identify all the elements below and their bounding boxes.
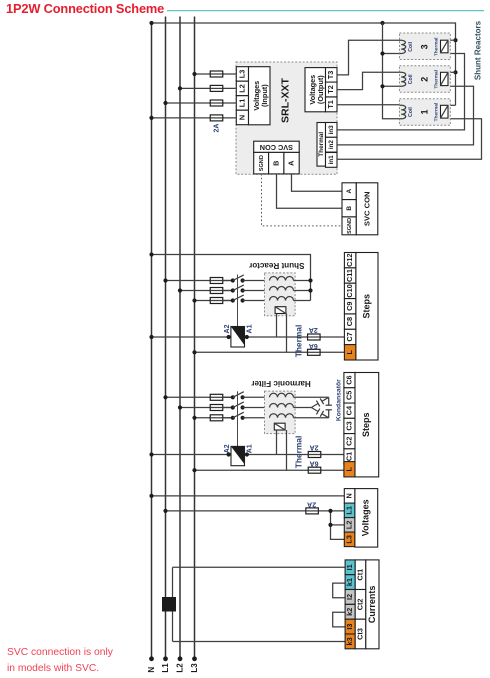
terminal steps1 C11 [344, 268, 356, 283]
svg-text:C4: C4 [344, 405, 353, 415]
svg-text:2A: 2A [307, 500, 316, 507]
svg-text:L3: L3 [238, 70, 247, 79]
wire section2 row 1 to coil [243, 396, 270, 398]
svg-text:3: 3 [419, 44, 429, 49]
svg-text:Currents: Currents [367, 586, 377, 624]
svg-text:L3: L3 [190, 663, 199, 673]
wire section2 thermal left [276, 430, 278, 455]
switch contactor K2 pole 3 [222, 417, 233, 419]
svg-text:2: 2 [419, 77, 429, 82]
svg-text:C10: C10 [345, 284, 354, 297]
fuse F-N 2A [209, 117, 224, 119]
wire A to SVC CON [292, 174, 343, 191]
wire SGND dotted to SVC CON [262, 174, 343, 226]
terminal SRL input N [236, 110, 248, 125]
wire section2 row 3 to coil [243, 417, 270, 419]
shunt reactor 3 [400, 33, 451, 60]
terminal SRL thermal in2 [326, 137, 338, 152]
wire section2 thermal right [286, 430, 288, 470]
svg-text:Steps: Steps [361, 412, 371, 437]
svg-text:in1: in1 [328, 155, 335, 165]
svg-text:A2: A2 [224, 444, 231, 453]
svg-text:Coil: Coil [408, 41, 414, 51]
svg-text:SRL-XXT: SRL-XXT [279, 77, 291, 123]
svg-text:A2: A2 [224, 324, 231, 333]
node L3 bus bottom terminal [192, 656, 197, 661]
inductor section1 coil 1 [270, 277, 294, 281]
svg-text:Shunt Reactor: Shunt Reactor [248, 261, 304, 270]
fuse F-L2 2A [209, 87, 224, 89]
svg-text:N: N [147, 667, 156, 673]
wire section2 phase row 3 [195, 417, 233, 419]
wire L1 to voltages [166, 510, 345, 512]
svg-text:Kondansatör: Kondansatör [336, 379, 343, 421]
capacitor right branch [328, 397, 330, 405]
terminal steps1 C8 [344, 314, 356, 329]
terminal voltages L2 [344, 518, 355, 533]
box Voltages [355, 489, 378, 547]
terminal voltages L3 [344, 532, 355, 547]
switch contactor K2 pole 1 [222, 396, 233, 398]
node section1 bus junction 1 [163, 278, 167, 282]
terminal steps1 C12 [344, 253, 356, 268]
wire T1 to reactor 1 coil [337, 104, 400, 106]
fuse F-L1 2A [209, 102, 224, 104]
svg-text:L: L [344, 467, 353, 472]
wire L2 bus vertical [179, 17, 181, 659]
terminal voltages L1 [344, 503, 355, 517]
terminal steps2 C6 [344, 373, 355, 388]
wire B to SVC CON [277, 174, 343, 208]
svg-text:Coil: Coil [408, 74, 414, 84]
inductor section1 coil 3 [270, 297, 294, 301]
fuse section1 row 2 [209, 290, 224, 292]
terminal steps1 C7 [344, 329, 356, 344]
node section1 L3 junction [192, 350, 196, 354]
wire section2 phase row 1 [166, 396, 233, 398]
node N bus bottom terminal [149, 656, 154, 661]
box Ct1 [355, 560, 366, 590]
terminal SVCCON A [342, 183, 356, 200]
wire reactor common vertical [383, 23, 400, 119]
contactor K1 coil [231, 327, 245, 348]
svg-text:Steps: Steps [361, 294, 371, 319]
node L1 bus bottom terminal [163, 656, 168, 661]
node N junction voltages [149, 494, 153, 498]
wire currents jumper k1-I2 [333, 583, 345, 598]
svg-text:1: 1 [419, 110, 429, 115]
wire section2 L feed [195, 469, 344, 471]
terminal SVCCON B [342, 200, 356, 217]
terminal SRL input L3 [236, 67, 248, 82]
wire section2 row 2 to coil [243, 407, 270, 409]
node contactor K1 A2 pin [227, 335, 231, 339]
svg-text:Ct3: Ct3 [355, 628, 364, 640]
svg-text:L1: L1 [161, 663, 170, 673]
terminal SRL thermal in1 [326, 153, 338, 168]
wire contactor K1 linkage [237, 275, 239, 327]
node N bus junction [149, 116, 153, 120]
wire thermal common chain [455, 40, 457, 105]
wire section1 row 3 to coil [243, 300, 270, 302]
svg-text:L1: L1 [345, 506, 354, 515]
terminal SRL input L1 [236, 96, 248, 111]
wire T2 to reactor 2 coil [337, 72, 400, 89]
svg-text:L1: L1 [238, 99, 247, 108]
svg-text:I3: I3 [345, 624, 354, 630]
node section2 bus junction 3 [192, 416, 196, 420]
svg-text:Coil: Coil [408, 107, 414, 117]
wire L3 bus vertical [194, 17, 196, 659]
wire section1 coil common to N [152, 255, 311, 301]
node L2 bus bottom terminal [178, 656, 183, 661]
thermal element section1 [275, 307, 286, 314]
svg-text:Thermal: Thermal [434, 38, 440, 57]
wire section1 phase row 1 [166, 280, 233, 282]
node contactor K2 A1 pin [245, 452, 249, 456]
node section1 N junction [149, 252, 153, 256]
box Voltages (Input) [249, 67, 271, 125]
wire currents jumper k2-I3 [333, 612, 345, 627]
svg-text:C2: C2 [344, 437, 353, 446]
fuse section2 6A [307, 469, 322, 471]
svg-text:C7: C7 [345, 332, 354, 341]
wire contactor K2 linkage [237, 391, 239, 446]
svg-text:SGND: SGND [347, 218, 353, 234]
wire R3 thermal top link [448, 39, 456, 41]
terminal steps2 L [344, 462, 355, 477]
svg-text:A: A [287, 160, 296, 166]
svg-text:T3: T3 [326, 71, 335, 80]
terminal currents I3 [345, 619, 355, 634]
svg-text:6A: 6A [309, 342, 318, 349]
wire R3 thermal to in3 [337, 54, 465, 130]
wire section1 L feed [195, 351, 345, 353]
inductor section1 coil 2 [270, 287, 294, 291]
node section2 N junction A2 [149, 452, 153, 456]
terminal voltages N [344, 489, 355, 504]
fuse section2 row 1 [209, 396, 224, 398]
node rail-N junction [149, 21, 153, 25]
svg-text:C1: C1 [344, 452, 353, 461]
wire section1 phase row 3 [195, 300, 233, 302]
svg-text:(Output): (Output) [316, 75, 325, 104]
terminal currents k2 [345, 604, 355, 619]
svg-text:C3: C3 [344, 421, 353, 430]
switch contactor K1 pole 3 [222, 300, 233, 302]
note SVC models [7, 645, 113, 677]
wire N to SRL input [152, 117, 237, 119]
wire section1 coil 2 out [294, 290, 311, 292]
wire L1 to SRL input [166, 102, 237, 104]
node contactor K2 A2 pin [227, 452, 231, 456]
node section1 coil out junction 1 [308, 278, 312, 282]
node section1 N junction A2 [149, 335, 153, 339]
svg-text:6A: 6A [310, 459, 319, 466]
svg-text:2A: 2A [214, 124, 221, 133]
inductor section2 coil 1 [270, 393, 294, 397]
node L1 bus junction [163, 101, 167, 105]
fuse section2 row 3 [209, 417, 224, 419]
svg-text:k2: k2 [345, 608, 354, 616]
wire N top rail [152, 23, 456, 40]
current transformer CT primary [162, 597, 176, 612]
wire N bus vertical [151, 23, 153, 659]
node section2 L3 junction [192, 468, 196, 472]
node reactor2 return junction [380, 84, 384, 88]
terminal SRL output T3 [326, 68, 338, 83]
wire R1 thermal to in1 [337, 119, 482, 160]
wire cap mid feed [294, 407, 312, 409]
terminal SRL output T1 [326, 97, 338, 112]
wire L1 bus vertical [165, 17, 167, 659]
wire section2 A2 feed [152, 454, 229, 456]
svg-text:T1: T1 [326, 100, 335, 109]
box Thermal inputs [317, 123, 326, 167]
svg-text:Ct2: Ct2 [355, 599, 364, 611]
node section1 coil out junction 2 [308, 288, 312, 292]
shunt reactor 2 [400, 66, 451, 93]
node voltages bridge junction 2 [328, 523, 332, 527]
node section1 bus junction 3 [192, 298, 196, 302]
svg-text:C6: C6 [344, 375, 353, 384]
terminal steps2 C5 [344, 388, 355, 403]
wire L3 to SRL input [195, 73, 237, 75]
wire section1 A2 feed [152, 336, 229, 338]
svg-text:Thermal: Thermal [434, 70, 440, 89]
box Shunt Reactor dashed [265, 273, 296, 316]
wire L2 to SRL input [180, 87, 236, 89]
terminal SRL thermal in3 [326, 123, 338, 138]
terminal steps2 C1 [344, 449, 355, 464]
terminal steps2 C3 [344, 418, 355, 433]
svg-text:A1: A1 [247, 444, 254, 453]
svg-text:L3: L3 [345, 535, 354, 544]
terminal currents k1 [345, 575, 355, 590]
fuse section1 2A [307, 336, 322, 338]
terminal steps2 C2 [344, 434, 355, 449]
svg-text:k1: k1 [345, 578, 354, 586]
wire section1 A1 to C7 [247, 336, 345, 338]
svg-text:C12: C12 [345, 253, 354, 266]
wire section1 phase row 2 [180, 290, 233, 292]
box Harmonic Filter dashed [265, 391, 296, 434]
wire reactor 3 coil return [383, 53, 400, 55]
terminal SRL output T2 [326, 82, 338, 97]
svg-text:T2: T2 [326, 85, 335, 94]
contactor K2 coil [231, 446, 245, 465]
svg-text:Ct1: Ct1 [355, 569, 364, 581]
shunt reactor 1 [400, 99, 451, 126]
svg-text:L: L [345, 350, 354, 355]
node reactor3 return junction [380, 51, 384, 55]
svg-text:2A: 2A [309, 326, 318, 333]
wire voltages L2 stub [331, 524, 345, 526]
node contactor K1 A1 pin [245, 335, 249, 339]
box SVC CON header [254, 141, 300, 152]
wire section1 thermal right [286, 314, 288, 353]
svg-text:L2: L2 [176, 663, 185, 673]
fuse section1 row 3 [209, 300, 224, 302]
svg-text:C9: C9 [345, 302, 354, 311]
svg-text:C8: C8 [345, 317, 354, 326]
box SVC CON external [356, 183, 378, 235]
terminal currents I1 [345, 560, 355, 575]
svg-text:Shunt Reactors: Shunt Reactors [474, 20, 483, 80]
wire section1 row 1 to coil [243, 280, 270, 282]
wire section2 phase row 2 [180, 407, 233, 409]
svg-text:Thermal: Thermal [294, 436, 304, 469]
node L3 bus junction [192, 72, 196, 76]
svg-text:B: B [271, 161, 280, 166]
teal header rule [167, 10, 484, 12]
terminal SVC B [269, 152, 284, 174]
box Ct3 [355, 619, 366, 649]
terminal steps1 C10 [344, 283, 356, 298]
svg-text:L2: L2 [345, 521, 354, 530]
node section2 bus junction 2 [178, 405, 182, 409]
svg-text:Voltages: Voltages [361, 499, 371, 536]
svg-text:SVC CON: SVC CON [260, 143, 293, 152]
terminal currents I2 [345, 590, 355, 605]
svg-text:N: N [238, 115, 247, 120]
svg-text:L2: L2 [238, 84, 247, 93]
box Steps 2 [355, 373, 379, 477]
svg-text:C11: C11 [345, 269, 354, 282]
node voltages bridge junction 1 [328, 509, 332, 513]
switch contactor K1 pole 2 [222, 290, 233, 292]
wire I1 to currents [173, 566, 346, 568]
svg-text:B: B [346, 206, 353, 211]
svg-text:2A: 2A [310, 444, 319, 451]
box Ct2 [355, 590, 366, 620]
capacitor upper diagonal [322, 397, 329, 401]
box Voltages (Output) [305, 68, 326, 112]
wire section1 coil 1 out [294, 280, 311, 282]
capacitor lower diagonal [322, 414, 329, 418]
fuse section1 row 1 [209, 280, 224, 282]
wire section2 A1 to C1 [247, 454, 344, 456]
wire R1 thermal top link [448, 104, 456, 106]
wire voltages bridge [331, 511, 345, 540]
fuse voltages 2A [305, 510, 320, 512]
node section1 bus junction 2 [178, 288, 182, 292]
inductor section2 coil 3 [270, 414, 294, 418]
terminal steps1 L [344, 345, 356, 360]
wire k3 to currents [173, 641, 346, 643]
terminal SVC A [284, 152, 299, 174]
wire reactor 2 coil return [383, 85, 400, 87]
svg-text:I1: I1 [345, 564, 354, 570]
svg-text:k3: k3 [345, 637, 354, 645]
fuse section2 2A [307, 454, 322, 456]
switch contactor K1 pole 1 [222, 280, 233, 282]
node L2 bus junction [178, 86, 182, 90]
svg-text:I2: I2 [345, 594, 354, 600]
title 1P2W Connection Scheme [6, 1, 164, 16]
wire R2 thermal top link [448, 71, 456, 73]
thermal element section2 [274, 423, 285, 430]
terminal steps1 C9 [344, 299, 356, 314]
wire section1 coil 3 out [294, 300, 311, 302]
terminal SRL input L2 [236, 81, 248, 96]
node L1 junction voltages [163, 509, 167, 513]
svg-text:C5: C5 [344, 391, 353, 400]
wire cap top feed [294, 396, 329, 398]
terminal currents k3 [345, 634, 355, 649]
svg-text:Thermal: Thermal [318, 132, 325, 157]
wire N to voltages [152, 495, 345, 497]
svg-text:A: A [346, 189, 353, 194]
node section2 bus junction 1 [163, 395, 167, 399]
box Currents [366, 560, 379, 649]
node rail-reactor-common junction [380, 21, 384, 25]
svg-text:Thermal: Thermal [434, 103, 440, 122]
terminal SVCCON SGND [342, 217, 356, 235]
fuse F-L3 2A [209, 73, 224, 75]
current transformer CT1 secondary [172, 567, 174, 641]
device SRL-XXT outline [236, 62, 337, 174]
svg-text:N: N [345, 493, 354, 498]
wire T3 to reactor 3 coil [337, 40, 400, 75]
fuse section2 row 2 [209, 407, 224, 409]
box Steps 1 [356, 253, 378, 361]
terminal SVC SGND [254, 152, 269, 174]
inductor section2 coil 2 [270, 404, 294, 408]
svg-text:A1: A1 [247, 324, 254, 333]
fuse section1 6A [307, 351, 322, 353]
node thermal chain R2 junction [453, 70, 457, 74]
wire section1 thermal left [276, 314, 278, 338]
svg-text:in3: in3 [328, 125, 335, 135]
svg-text:(Input): (Input) [260, 84, 269, 107]
svg-text:SGND: SGND [259, 155, 265, 171]
svg-text:Harmonic Filter: Harmonic Filter [250, 379, 310, 388]
wire R2 thermal to in2 [337, 86, 474, 145]
node thermal chain R3 junction [453, 38, 457, 42]
svg-text:in2: in2 [328, 140, 335, 150]
wire cap bottom feed [294, 417, 329, 419]
terminal steps2 C4 [344, 403, 355, 418]
svg-text:SVC CON: SVC CON [362, 191, 371, 226]
wire section1 row 2 to coil [243, 290, 270, 292]
switch contactor K2 pole 2 [222, 407, 233, 409]
